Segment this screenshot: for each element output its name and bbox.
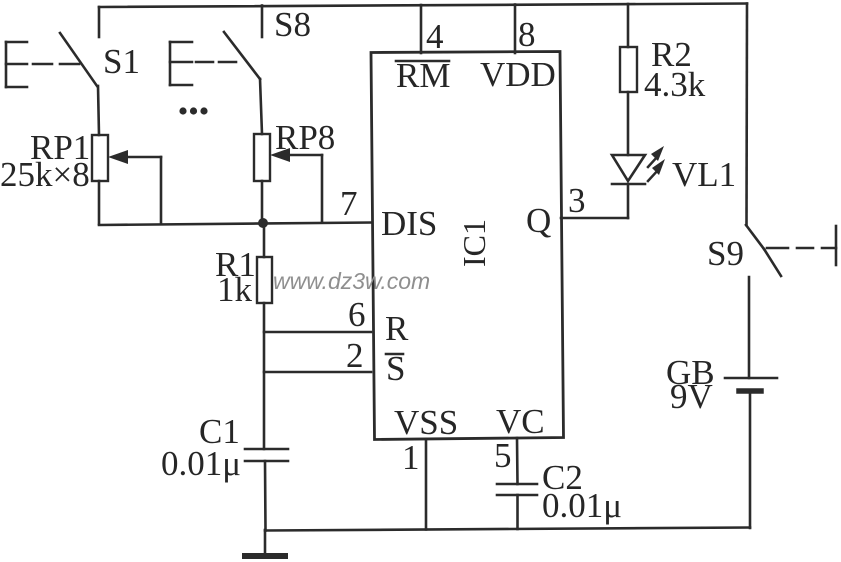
svg-text:5: 5	[494, 436, 512, 475]
wire S8 to RP8	[260, 79, 262, 134]
wire pin3 Q output	[561, 217, 628, 220]
wire pin2 S	[264, 371, 371, 374]
wire S9 to battery	[748, 277, 751, 378]
svg-text:1k: 1k	[217, 270, 253, 309]
S overline	[386, 353, 403, 356]
svg-text:VL1: VL1	[672, 155, 736, 194]
wire S9 top drop	[745, 4, 748, 226]
wire R2 top drop	[627, 4, 630, 47]
node junction dot	[258, 218, 268, 228]
svg-text:8: 8	[518, 15, 536, 54]
svg-text:R: R	[385, 309, 409, 348]
op-amp U1 IC1 box	[371, 52, 564, 440]
wire bottom rail	[265, 528, 750, 531]
switch S1	[6, 33, 97, 87]
label dots ellipsis	[179, 107, 207, 114]
switch S8	[170, 32, 260, 85]
wire IC pin1 VSS to rail	[425, 439, 428, 530]
wire C2 to bottom rail	[516, 495, 519, 529]
svg-text:0.01μ: 0.01μ	[542, 486, 622, 525]
wire IC pin5 VC to C2	[516, 438, 519, 484]
svg-text:S9: S9	[707, 234, 744, 273]
RM overline	[396, 60, 449, 63]
wire node to R1	[263, 223, 266, 257]
wire RP1 bottom	[98, 181, 101, 224]
wire top rail	[99, 4, 747, 8]
svg-text:VDD: VDD	[480, 55, 556, 94]
wire pin6 R	[264, 331, 371, 334]
svg-text:7: 7	[340, 184, 358, 223]
svg-text:2: 2	[346, 336, 364, 375]
wire node rail to pin7	[99, 223, 372, 226]
wire battery to bottom rail	[749, 392, 752, 528]
battery GB	[725, 378, 777, 391]
svg-text:6: 6	[348, 295, 366, 334]
wire R1 to C1	[263, 303, 266, 449]
svg-text:0.01μ: 0.01μ	[161, 444, 241, 483]
wire IC pin4 drop	[420, 5, 423, 53]
svg-text:25k×8: 25k×8	[0, 155, 90, 194]
svg-text:9V: 9V	[670, 377, 713, 416]
svg-text:www.dz3w.com: www.dz3w.com	[273, 268, 430, 294]
LED VL1	[612, 146, 665, 218]
wire S1 to RP1	[98, 86, 99, 135]
ground	[245, 530, 285, 556]
wire S8 top drop	[261, 6, 264, 38]
svg-text:DIS: DIS	[381, 204, 437, 243]
svg-text:1: 1	[402, 438, 420, 477]
wire R2 to LED	[627, 92, 630, 155]
RP1 wiper arrow	[108, 150, 161, 224]
wire C1 to bottom rail	[264, 461, 267, 531]
svg-text:Q: Q	[526, 201, 551, 240]
potentiometer RP1	[92, 135, 108, 181]
RP8 wiper arrow	[270, 148, 322, 222]
svg-text:3: 3	[568, 181, 586, 220]
svg-text:S8: S8	[274, 5, 311, 44]
switch S9	[746, 225, 836, 276]
svg-text:4.3k: 4.3k	[644, 65, 706, 104]
wire IC pin8 drop	[514, 5, 517, 54]
potentiometer RP8	[254, 134, 270, 181]
svg-text:VSS: VSS	[394, 403, 458, 442]
svg-text:IC1: IC1	[456, 219, 492, 267]
svg-text:RP8: RP8	[275, 118, 335, 157]
wire S1 top drop	[98, 7, 101, 37]
resistor R1	[257, 257, 272, 303]
capacitor C2	[497, 484, 537, 495]
wire RP8 bottom	[261, 181, 264, 223]
capacitor C1	[245, 449, 288, 461]
resistor R2	[620, 47, 637, 92]
svg-text:4: 4	[426, 17, 444, 56]
svg-text:S1: S1	[103, 42, 140, 81]
